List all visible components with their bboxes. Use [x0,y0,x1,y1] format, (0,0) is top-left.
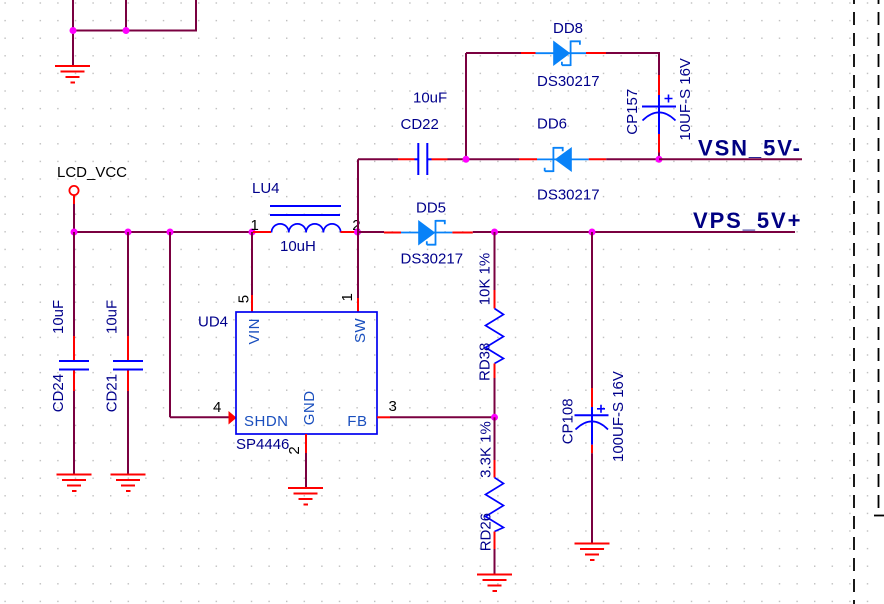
resistor RD38 zigzag [486,309,504,364]
wire main rail left [74,231,252,233]
wire DD6 right [606,158,660,160]
diode DD6 pin right [589,158,607,160]
ground GND6 [575,544,610,561]
wire CD22 branch vertical [357,159,359,232]
capacitor CP157 plus sign [665,95,673,103]
capacitor CP108 plate [575,414,609,416]
wire rail between L and DD5 [359,231,384,233]
wire VSN net [659,158,802,160]
svg-text:10UF-S 16V: 10UF-S 16V [677,58,694,141]
capacitor CD24 wire upper [73,232,75,336]
diode DD6 pin left [519,158,537,160]
op-amp U1 : IC UD4 box [236,312,377,434]
capacitor CD24 plates [59,361,89,370]
wire top-left vertical 2 [125,0,127,31]
svg-text:LCD_VCC: LCD_VCC [57,164,127,181]
ground GND4 [288,488,323,505]
svg-text:10K 1%: 10K 1% [477,253,494,306]
inductor LU4 pin 2 stub [341,231,357,233]
ground GND3 [111,475,146,492]
capacitor CD21 wire upper [127,232,129,336]
svg-text:VSN_5V-: VSN_5V- [698,135,802,160]
diode DD5 lead line [401,232,452,234]
capacitor CD21 wire lower [127,391,129,475]
diode DD5 pin left [384,232,401,234]
capacitor CP157 plate [642,106,676,108]
svg-text:5: 5 [236,295,253,303]
wire SW vertical [357,232,359,298]
svg-text:LU4: LU4 [252,180,280,197]
junction x659 y159 [656,156,663,163]
svg-text:SP4446: SP4446 [236,436,289,453]
inductor LU4 coil [272,224,341,233]
svg-text:GND: GND [301,390,318,425]
diode DD8 triangle [553,41,570,67]
capacitor CP108 wire top [591,232,593,388]
pin 4 arrow [229,411,237,425]
junction rail x357.5 (L pin 2) [354,229,361,236]
svg-text:DD8: DD8 [553,20,583,37]
svg-text:CP157: CP157 [624,89,641,135]
wire DD8 right [606,52,660,54]
wire DD8 left [466,52,521,54]
svg-text:UD4: UD4 [198,313,228,330]
pin GND stub [305,434,307,453]
svg-text:DS30217: DS30217 [537,73,600,90]
junction rail x128 [125,229,132,236]
capacitor CP108 lead bottom [591,415,593,444]
capacitor CP157 arc plate [643,112,676,120]
capacitor CD21 pin lower [127,371,129,392]
diode DD6 triangle [555,147,572,172]
svg-text:FB: FB [347,413,367,430]
svg-text:SW: SW [352,317,369,343]
wire SHDN vertical [169,232,171,417]
svg-text:RD26: RD26 [478,513,495,551]
capacitor CP157 lead top [658,95,660,107]
diode DD8 pin left [521,52,536,54]
capacitor CP108 pin bottom [591,445,593,454]
resistor RD26 pin bottom [494,532,496,550]
diode DD6 lead line [537,158,589,160]
svg-text:2: 2 [286,446,303,454]
diode DD6 schottky bar [545,147,563,172]
svg-text:100UF-S 16V: 100UF-S 16V [610,371,627,462]
pin VIN stub [251,295,253,312]
diode DD8 lead line [536,52,587,54]
wire DD8 branch vertical [465,53,467,159]
junction rail x592 [589,229,596,236]
junction rail x252 (L pin 1) [249,229,256,236]
svg-text:4: 4 [213,399,221,416]
resistor RD38 pin bottom [494,364,496,379]
diode DD5 pin right [452,232,472,234]
sheet border inner dashed [878,0,880,509]
capacitor CP157 pin bottom [658,134,660,153]
wire FB horizontal [390,416,495,418]
wire LCD_VCC to rail [73,204,75,232]
capacitor CD21 pin upper [127,336,129,360]
junction x466 y159 [463,156,470,163]
svg-text:RD38: RD38 [477,343,494,381]
capacitor CD22 pin left [398,158,415,160]
resistor RD38 wire bottom [494,378,496,417]
resistor RD26 pin top [494,460,496,478]
capacitor CD24 pin lower [73,371,75,392]
capacitor CD24 wire lower [73,391,75,475]
wire rail right of DD5 [473,231,795,233]
junction rail x494.5 [491,229,498,236]
svg-text:1: 1 [251,217,259,234]
capacitor CP157 lead bottom [658,107,660,135]
capacitor CD22 plates [418,143,427,175]
svg-text:CD22: CD22 [401,116,439,133]
junction rail x170 [167,229,174,236]
wire top-left vertical 3 [195,0,197,32]
capacitor CP108 arc plate [576,421,609,429]
svg-text:1: 1 [339,293,356,301]
junction rail x74 [71,229,78,236]
svg-text:10uF: 10uF [50,300,67,334]
resistor RD26 wire top [494,417,496,460]
junction FB node [491,414,498,421]
svg-text:DD5: DD5 [416,199,446,216]
inductor LU4 pin 1 stub [253,231,271,233]
power port LCD_VCC circle [69,186,78,195]
junction top-left A [70,27,77,34]
resistor RD38 pin top [494,290,496,309]
wire CD22 branch horizontal [358,158,398,160]
wire SHDN horizontal [170,416,229,418]
diode DD5 triangle [418,220,435,246]
diode DD5 schottky bar [427,220,445,246]
junction top-left B [123,27,130,34]
resistor RD38 wire top [494,232,496,290]
capacitor CP108 wire bottom [591,453,593,543]
wire DD6 left [466,158,519,160]
resistor RD26 wire bottom [494,549,496,575]
pin FB stub [377,416,390,418]
capacitor CD22 pin right [432,158,448,160]
svg-text:VPS_5V+: VPS_5V+ [693,208,802,233]
svg-text:DS30217: DS30217 [401,251,464,268]
svg-text:CD24: CD24 [50,374,67,412]
svg-text:10uF: 10uF [413,89,447,106]
capacitor CP157 wire bottom [658,153,660,160]
wire CD22 to junction [448,158,467,160]
sheet border outer dashed [853,0,855,604]
svg-text:DD6: DD6 [537,116,567,133]
wire ground stub [72,31,74,67]
capacitor CP157 pin top [658,75,660,95]
capacitor CD22 lead right [428,158,432,160]
ground GND1 [55,66,90,83]
capacitor CD24 pin upper [73,336,75,360]
capacitor CP157 wire top [658,52,660,75]
capacitor CP108 lead top [591,407,593,415]
svg-text:10uF: 10uF [104,300,121,334]
svg-text:SHDN: SHDN [244,413,289,430]
wire GND to ground [305,453,307,488]
power port LCD_VCC stub [73,195,75,204]
svg-text:3: 3 [389,398,397,415]
svg-text:10uH: 10uH [280,238,316,255]
inductor LU4 core bars [270,206,341,215]
svg-text:VIN: VIN [246,318,263,345]
capacitor CP108 pin top [591,388,593,407]
svg-text:DS30217: DS30217 [537,187,600,204]
wire top-left horizontal [72,30,196,32]
capacitor CD22 lead left [415,158,418,160]
svg-text:CP108: CP108 [560,398,577,444]
resistor RD26 zigzag [486,478,504,532]
wire top-left vertical 1 [72,0,74,31]
wire VIN vertical [251,232,253,295]
diode DD8 schottky bar [562,41,580,67]
svg-text:CD21: CD21 [104,374,121,412]
ground GND2 [57,475,92,492]
capacitor CD21 plates [113,361,143,370]
ground GND5 [477,575,512,592]
diode DD8 pin right [586,52,606,54]
sheet border inner corner dash [874,515,884,517]
svg-text:3.3K 1%: 3.3K 1% [478,421,495,478]
capacitor CP108 plus sign [597,405,605,413]
pin SW stub [357,298,359,312]
